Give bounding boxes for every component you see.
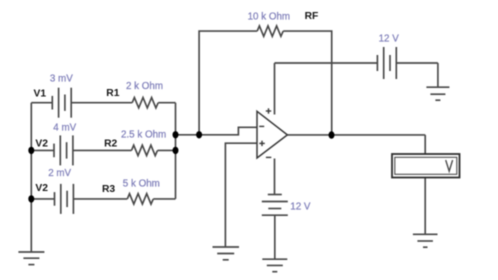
svg-text:5 k Ohm: 5 k Ohm (123, 179, 160, 190)
svg-text:10 k Ohm: 10 k Ohm (248, 11, 290, 22)
svg-text:R1: R1 (106, 88, 119, 99)
svg-text:4 mV: 4 mV (53, 123, 76, 134)
svg-text:R2: R2 (104, 138, 117, 149)
svg-text:V2: V2 (35, 183, 48, 194)
svg-text:2 k Ohm: 2 k Ohm (126, 81, 163, 92)
svg-text:V1: V1 (34, 89, 47, 100)
svg-text:V2: V2 (35, 138, 48, 149)
svg-text:12 V: 12 V (379, 33, 400, 44)
svg-text:2.5 k Ohm: 2.5 k Ohm (121, 130, 166, 141)
svg-text:3 mV: 3 mV (50, 74, 73, 85)
svg-text:12 V: 12 V (290, 202, 311, 213)
svg-text:RF: RF (305, 11, 319, 22)
svg-text:R3: R3 (102, 184, 115, 195)
svg-text:2 mV: 2 mV (48, 168, 71, 179)
